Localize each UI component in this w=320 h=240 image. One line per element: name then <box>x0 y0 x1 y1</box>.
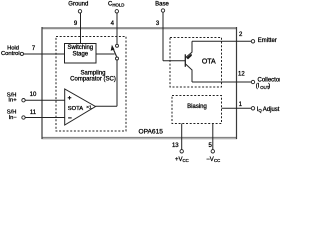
svg-text:Emitter: Emitter <box>258 38 277 44</box>
svg-text:SOTA: SOTA <box>68 106 83 112</box>
svg-text:HOLD: HOLD <box>112 2 124 7</box>
svg-text:Switching: Switching <box>67 45 93 51</box>
svg-text:Sampling: Sampling <box>80 70 105 76</box>
svg-text:Comparator (SC): Comparator (SC) <box>70 77 116 83</box>
svg-text:OTA: OTA <box>202 58 216 65</box>
svg-text:(I: (I <box>256 84 260 90</box>
svg-text:In−: In− <box>9 115 18 121</box>
svg-text:Base: Base <box>155 1 169 7</box>
svg-text:13: 13 <box>172 143 179 149</box>
svg-text:Biasing: Biasing <box>187 104 207 110</box>
svg-text:CC: CC <box>214 158 220 163</box>
svg-text:CC: CC <box>183 158 189 163</box>
svg-text:×1: ×1 <box>86 105 92 110</box>
svg-text:): ) <box>268 84 270 90</box>
svg-text:−V: −V <box>206 157 214 163</box>
svg-text:Ground: Ground <box>68 1 88 7</box>
svg-text:Control: Control <box>1 51 20 57</box>
svg-text:Stage: Stage <box>72 51 88 57</box>
svg-text:OPA615: OPA615 <box>139 129 164 136</box>
svg-text:−: − <box>68 115 72 122</box>
svg-text:12: 12 <box>238 72 245 78</box>
svg-text:In+: In+ <box>8 97 17 103</box>
svg-text:10: 10 <box>30 92 37 98</box>
svg-text:Adjust: Adjust <box>263 107 280 113</box>
svg-text:11: 11 <box>30 110 37 116</box>
svg-text:+: + <box>68 95 72 102</box>
svg-text:+V: +V <box>175 157 183 163</box>
